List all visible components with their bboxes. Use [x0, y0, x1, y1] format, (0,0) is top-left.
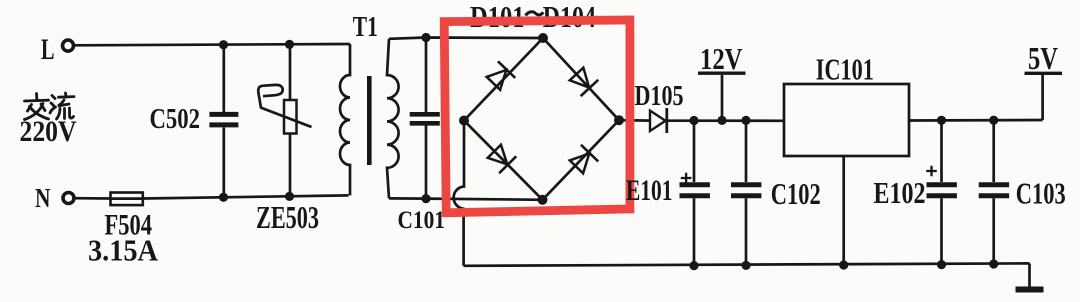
polarity + E102 [926, 166, 937, 176]
regulator IC101 [784, 84, 909, 156]
power rail 12V [721, 75, 724, 121]
wire secondary top to bridge [389, 38, 542, 39]
svg-text:C101: C101 [398, 207, 446, 234]
node junction bottom C502 [219, 193, 228, 202]
node junction 12V tap [717, 116, 726, 125]
svg-text:T1: T1 [353, 12, 378, 43]
svg-text:E102: E102 [874, 175, 926, 210]
wire N to fuse [74, 197, 110, 200]
highlight box D101~D104 [444, 20, 630, 213]
ground [1028, 263, 1031, 287]
node junction C101 top [421, 33, 430, 42]
wire IC101 ground pin [842, 156, 845, 265]
wire bridge left node down with hop [454, 121, 464, 266]
diode D104 [568, 145, 598, 175]
capacitor C102 [745, 120, 748, 182]
bridge edge wire bottom-right [543, 120, 620, 200]
bridge edge wire top-right [543, 38, 619, 120]
label 交流 (AC) [25, 93, 75, 120]
bridge edge wire left-bottom [464, 121, 543, 200]
diode D103 [486, 143, 516, 173]
diode D102 [568, 66, 599, 96]
fuse F504 [111, 193, 143, 206]
wire fuse to transformer bottom [144, 195, 349, 198]
svg-text:L: L [41, 33, 55, 66]
capacitor C502 [222, 45, 225, 112]
varistor ZE503 [289, 44, 292, 100]
node junction C103 bottom [989, 259, 998, 268]
node junction bottom ZE503 [285, 192, 294, 201]
svg-text:220V: 220V [20, 116, 77, 148]
wire bridge right node to D105 [619, 119, 650, 122]
svg-text:C103: C103 [1016, 176, 1066, 211]
node junction E102 bottom [937, 260, 946, 269]
svg-text:E101: E101 [626, 174, 673, 207]
transformer core [367, 76, 372, 165]
svg-text:C102: C102 [771, 176, 821, 211]
wire secondary bottom to bridge [389, 198, 543, 199]
svg-text:N: N [35, 183, 51, 213]
capacitor E102 [940, 120, 943, 182]
node junction E102 top [937, 116, 946, 125]
svg-text:12V: 12V [700, 41, 743, 76]
capacitor C103 [992, 120, 995, 182]
svg-text:5V: 5V [1028, 40, 1058, 76]
bridge edge wire left-top [464, 38, 543, 121]
transformer T1 secondary winding [387, 39, 399, 199]
node bridge top [538, 33, 548, 43]
node junction top ZE503 [285, 40, 294, 49]
capacitor C101 [425, 38, 428, 113]
transformer T1 primary winding [340, 44, 350, 195]
svg-text:IC101: IC101 [816, 51, 874, 86]
node junction C103 top [989, 116, 998, 125]
node junction top C502 [219, 40, 228, 49]
node junction C102 bottom [741, 261, 750, 270]
node junction E101 bottom [689, 261, 698, 270]
terminal L [63, 40, 74, 51]
svg-text:ZE503: ZE503 [256, 200, 319, 235]
svg-text:C502: C502 [150, 104, 201, 135]
node junction E101 top [689, 116, 698, 125]
wire IC101 output rail [909, 119, 1043, 122]
power rail 5V [1041, 75, 1044, 120]
node junction IC101 ground [839, 260, 848, 269]
terminal N [63, 193, 74, 204]
diode D101 [485, 61, 515, 91]
wire L top rail [74, 44, 350, 45]
node junction C102 top [741, 116, 750, 125]
wire D105 to IC101 [667, 119, 784, 122]
diode D105 [650, 111, 666, 131]
capacitor E101 [693, 121, 696, 183]
wire ground bottom rail [464, 263, 1030, 265]
node junction C101 bottom [421, 194, 430, 203]
node bridge right [614, 115, 624, 125]
svg-text:D105: D105 [635, 81, 684, 112]
svg-text:3.15A: 3.15A [88, 233, 159, 268]
node bridge left [459, 116, 469, 126]
polarity + E101 [681, 173, 692, 183]
node bridge bottom [538, 195, 548, 205]
